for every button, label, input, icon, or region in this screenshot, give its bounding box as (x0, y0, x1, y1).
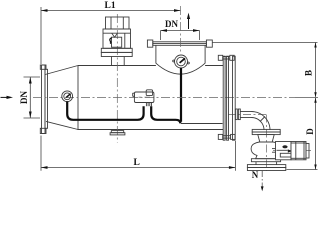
valve bonnet (258, 135, 274, 142)
dimension D extension (valve outlet level) (287, 169, 318, 171)
vertical centerline of top nozzle (180, 6, 182, 53)
dimension D line (315, 98, 317, 170)
cone top edge (45, 66, 78, 75)
svg-text:DN: DN (165, 19, 178, 29)
pressure gauge (left, on cone) (62, 91, 73, 102)
dimension DN (top nozzle) (161, 31, 200, 41)
drain pipe horizontal walls (240, 112, 251, 118)
motor gearbox (276, 142, 293, 160)
cone bottom edge (46, 121, 78, 129)
differential pressure device (133, 90, 154, 106)
cone-shell weld line (77, 66, 79, 131)
right end cover plate (233, 56, 236, 140)
dimension DN top arrows (161, 29, 200, 32)
svg-text:DN: DN (19, 91, 29, 104)
motor shaft coupling (272, 149, 276, 153)
svg-text:D: D (305, 128, 315, 135)
dimension L arrows (41, 166, 235, 169)
main horizontal centerline (33, 97, 295, 99)
vessel shell top line (78, 65, 156, 67)
inlet flow arrow (1, 96, 14, 99)
svg-text:L: L (134, 158, 140, 168)
gauge tube left run (thick) (67, 101, 143, 120)
motor horizontal centerline (273, 149, 312, 151)
dimension DN left arrows (29, 77, 32, 118)
safety valve body (103, 29, 131, 48)
dimension L line (41, 136, 235, 171)
dimension D arrows (314, 98, 316, 170)
valve lower flange (251, 159, 280, 162)
vessel shell bottom line (78, 129, 223, 131)
dimension L1 arrows (41, 9, 181, 12)
valve outlet flange (247, 162, 285, 171)
safety valve device (top left) cap (106, 17, 130, 29)
drain nozzle under shell (110, 131, 125, 135)
nozzle N down arrow (261, 186, 264, 191)
inlet flange (left) (40, 65, 47, 134)
gauge tube right run (thick) (151, 106, 180, 123)
vertical centerline through top device and drain (116, 14, 118, 143)
dimension DN (left inlet) (24, 77, 41, 118)
dimension B arrows (314, 43, 316, 98)
gauge siphon stem (thick) (180, 68, 182, 122)
drain valve vertical centerline (266, 115, 268, 172)
elbow (252, 112, 271, 131)
safety valve nozzle neck (112, 57, 125, 66)
outlet flow arrow (up) (188, 17, 190, 29)
top nozzle neck (156, 45, 205, 63)
top nozzle flange (147, 40, 212, 47)
nozzle-shell intersection dome curve (156, 63, 205, 74)
motor body (291, 142, 306, 160)
valve top flange (252, 129, 280, 134)
svg-text:L1: L1 (105, 1, 116, 11)
dimension L1 line (41, 7, 181, 64)
svg-text:B: B (304, 70, 314, 76)
cover bolts bottom (218, 134, 235, 139)
dimension B line (315, 43, 317, 97)
motor end cap (306, 144, 309, 159)
valve body (251, 142, 281, 159)
thin drain tube line to right end (181, 123, 223, 125)
svg-text:N: N (252, 170, 259, 180)
cover bolts top (218, 55, 234, 60)
dimension B extension (top flange level) (212, 42, 317, 44)
safety valve base flange (101, 48, 132, 56)
drain pipe flange at cover (235, 109, 240, 120)
pressure gauge (top, on nozzle) (173, 55, 190, 68)
right end cover flange ring (223, 56, 228, 140)
drain pipe horizontal centerline (228, 114, 267, 116)
